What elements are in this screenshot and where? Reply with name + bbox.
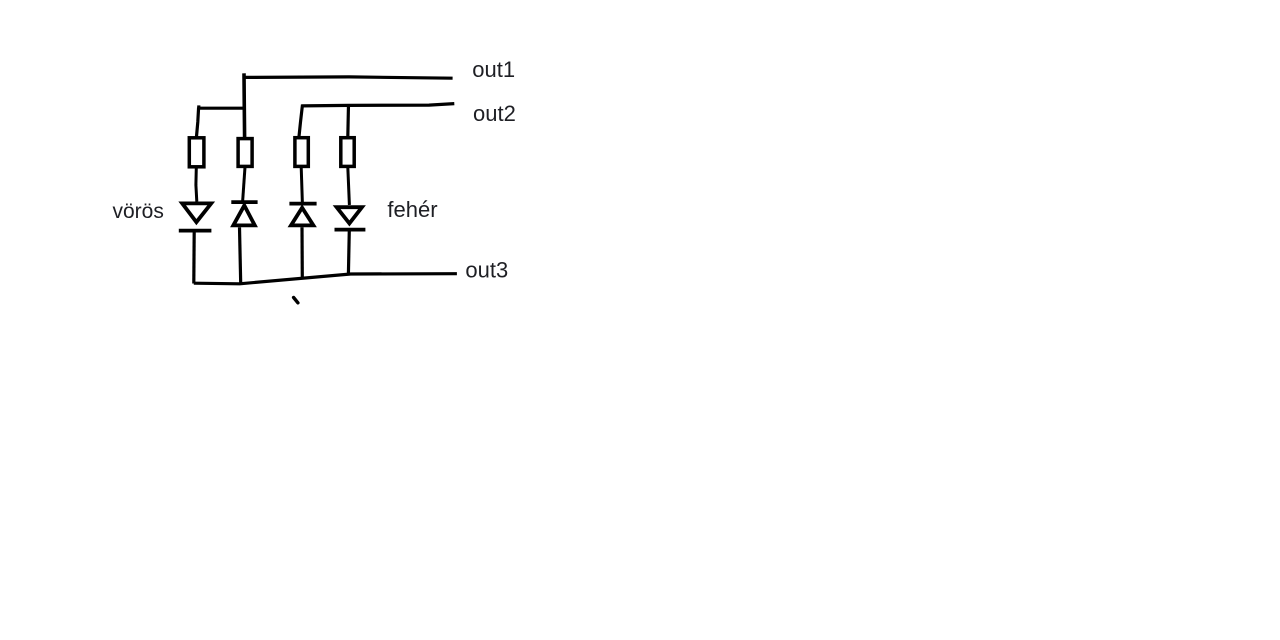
wire: D1 to bottom rail <box>192 231 196 284</box>
wire: out3 bottom rail <box>194 274 457 284</box>
wire: out2 horizontal rail <box>302 104 455 106</box>
LED D4 (fehér, cathode down) <box>335 207 366 229</box>
svg-text:out2: out2 <box>473 101 516 126</box>
svg-text:out1: out1 <box>472 57 515 82</box>
wire: branch 1 top vertical <box>196 108 198 138</box>
wire: left pair top horizontal <box>197 107 245 110</box>
wire: R2 to D2 <box>243 167 245 202</box>
wire: out1 horizontal rail <box>243 77 453 78</box>
svg-text:vörös: vörös <box>113 200 164 223</box>
node: junction of branch1/branch2 top wire <box>197 105 200 108</box>
LED D1 (vörös, cathode down) <box>179 203 212 230</box>
stray pen tick <box>294 298 298 303</box>
wire: D4 to bottom rail <box>347 230 351 275</box>
resistor R3 <box>295 138 308 167</box>
svg-text:out3: out3 <box>465 258 508 283</box>
resistor R1 <box>189 138 204 167</box>
resistor R4 <box>341 138 354 167</box>
LED D3 (cathode up) <box>289 204 316 226</box>
wire: branch 4 top vertical <box>346 104 350 138</box>
wire: D2 to bottom rail <box>240 227 241 283</box>
resistor R2 <box>238 139 252 167</box>
svg-text:fehér: fehér <box>387 197 437 222</box>
wire: D3 to bottom rail <box>300 227 303 278</box>
LED D2 (cathode up) <box>231 202 257 225</box>
wire: R4 to D4 <box>348 167 350 205</box>
wire: R1 to D1 <box>194 168 198 202</box>
wire: branch 2 top vertical (to out1) <box>242 73 246 137</box>
wire: branch 3 top vertical <box>299 105 303 138</box>
wire: R3 to D3 <box>301 167 302 203</box>
